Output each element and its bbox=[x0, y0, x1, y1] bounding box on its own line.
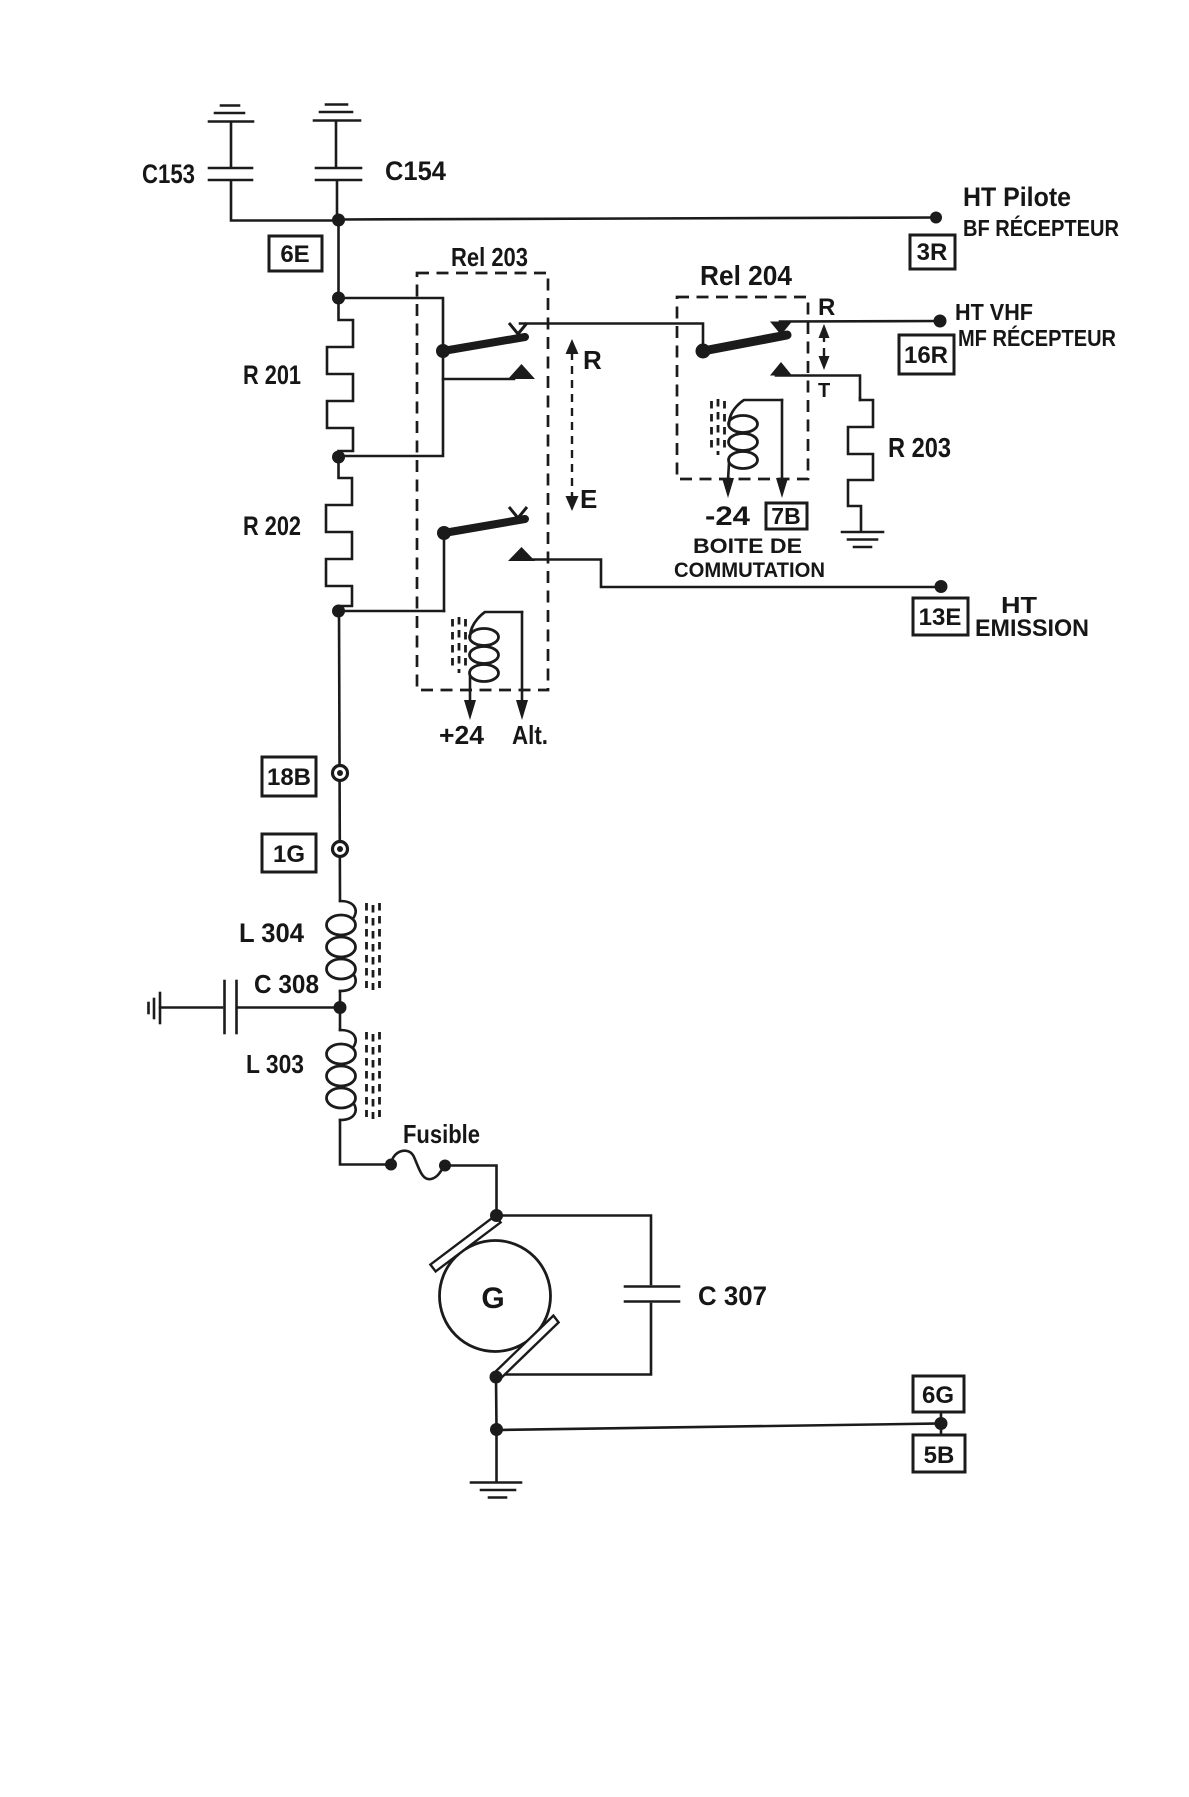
svg-text:18B: 18B bbox=[267, 764, 311, 791]
wire L304 to node D bbox=[339, 991, 342, 1030]
capacitor C307 bbox=[625, 1287, 679, 1302]
svg-text:EMISSION: EMISSION bbox=[975, 615, 1089, 642]
stub 6G box to node bbox=[940, 1412, 943, 1434]
inductor L303 bbox=[327, 1030, 356, 1120]
svg-text:+24: +24 bbox=[439, 720, 485, 750]
svg-text:Fusible: Fusible bbox=[403, 1119, 480, 1149]
ground above C154 bbox=[314, 105, 360, 121]
node HT VHF terminal bbox=[934, 315, 947, 328]
svg-text:13E: 13E bbox=[919, 604, 962, 631]
contact E1 filled triangle bbox=[508, 364, 535, 379]
node 6G/5B terminal bbox=[935, 1417, 948, 1430]
wire L303 down and to fuse bbox=[340, 1120, 391, 1165]
brush lower of generator bbox=[492, 1316, 558, 1382]
wire stub to contact E1 of Rel203 upper switch bbox=[443, 378, 514, 381]
svg-text:R: R bbox=[583, 345, 602, 375]
terminal box 5B bbox=[913, 1435, 965, 1472]
svg-text:HT VHF: HT VHF bbox=[955, 299, 1033, 325]
relay Rel 204 dashed enclosure bbox=[677, 297, 808, 479]
terminal box 18B bbox=[262, 757, 316, 796]
coil lead to Alt with arrow bbox=[516, 612, 528, 720]
node generator bottom bbox=[490, 1371, 503, 1384]
node A top of R201 bbox=[332, 292, 345, 305]
svg-text:E: E bbox=[580, 484, 597, 514]
wire contact R1 to Rel204 pivot bbox=[520, 324, 703, 349]
svg-text:Alt.: Alt. bbox=[512, 720, 548, 750]
armature arm Rel203 lower bbox=[444, 519, 525, 533]
svg-text:C 308: C 308 bbox=[254, 969, 319, 999]
wire ground to C153 bbox=[230, 123, 233, 166]
node C bottom of R202 bbox=[332, 605, 345, 618]
svg-text:C154: C154 bbox=[385, 156, 446, 186]
terminal box 7B bbox=[766, 503, 807, 529]
contact R filled triangle down bbox=[770, 322, 792, 336]
contact T filled triangle up bbox=[770, 362, 792, 376]
svg-text:16R: 16R bbox=[904, 342, 948, 369]
generator G body bbox=[440, 1241, 551, 1352]
svg-text:G: G bbox=[481, 1282, 504, 1315]
wire contact R to HT VHF terminal bbox=[780, 320, 940, 323]
contact R2 open chevron bbox=[509, 507, 527, 518]
coil core Rel203 bbox=[453, 617, 466, 673]
wire node C to lower pivot column bbox=[339, 610, 445, 613]
pivot column Rel203 lower switch bbox=[443, 535, 446, 611]
capacitor C308 bbox=[225, 981, 237, 1033]
svg-text:L 304: L 304 bbox=[239, 918, 304, 948]
svg-text:3R: 3R bbox=[917, 239, 948, 266]
pivot Rel204 bbox=[696, 344, 711, 359]
contact E2 filled triangle bbox=[508, 547, 535, 561]
ground left of C308 bbox=[149, 993, 161, 1023]
wire generator top node to C307 bbox=[497, 1216, 652, 1285]
dashed travel arrow R/T of Rel204 bbox=[819, 324, 830, 370]
wire junction down to node A bbox=[337, 220, 340, 298]
wire C153 to junction bbox=[231, 182, 339, 221]
relay Rel 203 dashed enclosure bbox=[417, 273, 548, 690]
svg-text:T: T bbox=[818, 380, 830, 402]
wire earth node down bbox=[495, 1430, 498, 1481]
svg-text:C 307: C 307 bbox=[698, 1281, 767, 1311]
capacitor C154 bbox=[316, 168, 361, 180]
node junction C153/C154/bus bbox=[332, 214, 345, 227]
svg-text:L 303: L 303 bbox=[246, 1049, 304, 1079]
svg-text:BF RÉCEPTEUR: BF RÉCEPTEUR bbox=[963, 214, 1119, 241]
wire C308 to node D bbox=[238, 1006, 340, 1009]
terminal box 16R bbox=[899, 335, 954, 374]
resistor R201 bbox=[327, 298, 353, 457]
pivot Rel203 upper bbox=[436, 344, 450, 358]
relay coil Rel203 bbox=[470, 612, 523, 682]
wire fuse to generator top bbox=[445, 1166, 497, 1216]
ground above C153 bbox=[209, 106, 253, 122]
svg-text:C153: C153 bbox=[142, 159, 195, 189]
node D bbox=[334, 1001, 347, 1014]
svg-text:-24: -24 bbox=[705, 501, 750, 531]
resistor R202 bbox=[326, 457, 352, 611]
svg-text:R 203: R 203 bbox=[888, 432, 951, 463]
node B between R201 R202 bbox=[332, 451, 345, 464]
terminal box 3R bbox=[910, 235, 955, 269]
svg-text:R 201: R 201 bbox=[243, 360, 301, 390]
armature arm Rel204 bbox=[703, 335, 787, 351]
svg-text:6E: 6E bbox=[280, 241, 309, 268]
fuse element bbox=[385, 1151, 451, 1180]
svg-text:MF RÉCEPTEUR: MF RÉCEPTEUR bbox=[958, 324, 1116, 351]
node HT Emission terminal bbox=[935, 580, 948, 593]
coil lead to -24 with arrow bbox=[722, 463, 734, 498]
brush upper of generator bbox=[430, 1216, 500, 1272]
svg-text:7B: 7B bbox=[771, 503, 800, 529]
svg-text:6G: 6G bbox=[922, 1382, 954, 1409]
ground below R203 bbox=[842, 532, 883, 547]
svg-text:1G: 1G bbox=[273, 841, 305, 868]
terminal box 6G bbox=[913, 1376, 964, 1412]
inductor L304 bbox=[327, 901, 356, 991]
wire main bus to HT Pilote bbox=[339, 218, 936, 220]
node 1G feedthrough bbox=[333, 842, 348, 857]
node HT Pilote terminal bbox=[930, 212, 942, 224]
relay coil Rel204 bbox=[729, 400, 783, 469]
terminal box 6E bbox=[269, 236, 322, 271]
coil lead to 7B with arrow bbox=[776, 400, 788, 498]
svg-text:BOITE DE: BOITE DE bbox=[693, 535, 802, 558]
wire C154 to junction bbox=[336, 182, 339, 219]
dashed travel arrow R/E of Rel203 bbox=[566, 339, 579, 511]
wire node C down to L304 bbox=[339, 611, 340, 901]
wire contact T to R203 bbox=[776, 376, 860, 401]
wire node A to armature column bbox=[339, 298, 444, 456]
svg-text:R 202: R 202 bbox=[243, 511, 301, 541]
coil core Rel204 bbox=[712, 399, 725, 455]
pivot Rel203 lower bbox=[437, 526, 451, 540]
svg-text:HT Pilote: HT Pilote bbox=[963, 182, 1071, 212]
coil lead to +24 with arrow bbox=[464, 676, 476, 720]
terminal box 1G bbox=[262, 834, 316, 872]
svg-text:Rel 204: Rel 204 bbox=[700, 260, 792, 291]
wire earth node to 6G/5B terminal bbox=[497, 1424, 942, 1431]
ground bottom bbox=[471, 1483, 521, 1498]
node earth junction bbox=[490, 1423, 503, 1436]
node 18B feedthrough bbox=[333, 766, 348, 781]
resistor R203 bbox=[848, 398, 873, 530]
core of L304 bbox=[367, 903, 380, 990]
svg-text:COMMUTATION: COMMUTATION bbox=[674, 559, 825, 582]
wire ground to C154 bbox=[335, 122, 338, 166]
svg-text:5B: 5B bbox=[924, 1442, 955, 1469]
wire C307 to generator bottom node bbox=[500, 1304, 651, 1375]
capacitor C153 bbox=[209, 168, 252, 180]
wire generator bottom to earth node bbox=[495, 1377, 498, 1429]
wire ground to C308 bbox=[160, 1006, 222, 1009]
terminal box 13E bbox=[913, 598, 968, 635]
core of L303 bbox=[367, 1032, 380, 1119]
svg-text:Rel 203: Rel 203 bbox=[451, 242, 528, 272]
node generator top bbox=[490, 1209, 503, 1222]
contact R1 open chevron bbox=[509, 323, 527, 334]
wire contact E2 to HT Emission bbox=[513, 560, 941, 588]
svg-text:R: R bbox=[818, 294, 835, 321]
armature arm Rel203 upper bbox=[443, 337, 525, 351]
